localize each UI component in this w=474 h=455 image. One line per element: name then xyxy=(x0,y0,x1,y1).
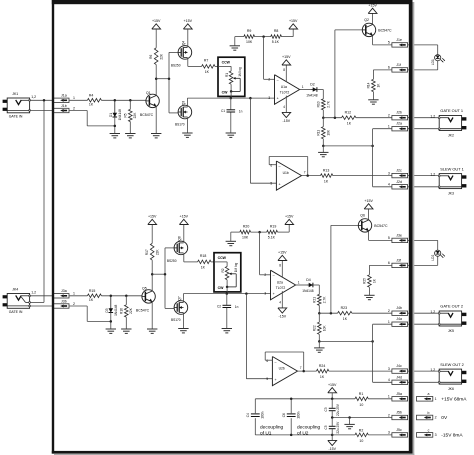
svg-text:J1a: J1a xyxy=(61,94,67,98)
svg-text:J4c: J4c xyxy=(396,364,402,368)
svg-text:GATE IN: GATE IN xyxy=(9,115,23,119)
svg-text:R6: R6 xyxy=(149,55,153,59)
svg-text:1n: 1n xyxy=(239,110,243,114)
svg-text:LD2: LD2 xyxy=(431,255,435,261)
svg-text:U1b: U1b xyxy=(283,171,289,175)
svg-text:JK1: JK1 xyxy=(12,92,18,96)
svg-text:2.7K: 2.7K xyxy=(322,296,326,303)
svg-text:+: + xyxy=(277,96,279,100)
svg-text:1: 1 xyxy=(388,125,390,129)
svg-text:R8: R8 xyxy=(274,29,279,33)
svg-text:2: 2 xyxy=(73,106,75,110)
svg-text:1: 1 xyxy=(73,96,75,100)
svg-text:JK6: JK6 xyxy=(448,387,454,391)
svg-text:J1f: J1f xyxy=(396,63,401,67)
svg-text:b: b xyxy=(428,411,430,415)
svg-text:C1: C1 xyxy=(221,109,225,113)
svg-text:JK5: JK5 xyxy=(448,329,454,333)
svg-text:Q8: Q8 xyxy=(178,236,182,240)
svg-text:D3: D3 xyxy=(105,308,109,312)
svg-text:+15V: +15V xyxy=(184,19,193,23)
svg-text:GATE OUT 1: GATE OUT 1 xyxy=(440,108,463,113)
svg-text:Q2: Q2 xyxy=(364,18,369,22)
svg-text:1N4148: 1N4148 xyxy=(302,289,313,293)
svg-text:BS250: BS250 xyxy=(167,259,177,263)
svg-text:22u 25V: 22u 25V xyxy=(336,421,340,434)
svg-text:TL072: TL072 xyxy=(280,90,290,94)
svg-text:+15V: +15V xyxy=(278,251,287,255)
svg-text:3: 3 xyxy=(264,292,266,296)
svg-text:1K: 1K xyxy=(201,265,206,269)
svg-text:1,2: 1,2 xyxy=(31,95,36,99)
svg-text:+15V: +15V xyxy=(285,215,294,219)
svg-text:4: 4 xyxy=(388,183,390,187)
svg-text:U2a: U2a xyxy=(277,281,283,285)
svg-text:J3e: J3e xyxy=(396,233,402,237)
svg-text:+: + xyxy=(279,183,281,187)
svg-text:1N4148: 1N4148 xyxy=(306,94,317,98)
svg-text:1: 1 xyxy=(73,292,75,296)
svg-text:D2: D2 xyxy=(310,82,315,86)
svg-text:J5b: J5b xyxy=(396,411,402,415)
svg-text:5: 5 xyxy=(266,377,268,381)
svg-text:J3b: J3b xyxy=(61,299,67,303)
svg-text:+15V: +15V xyxy=(289,19,298,23)
svg-text:J1b: J1b xyxy=(61,104,67,108)
svg-text:6: 6 xyxy=(388,261,390,265)
svg-text:Q4: Q4 xyxy=(182,41,186,45)
svg-text:BC547C: BC547C xyxy=(374,224,388,228)
svg-text:J2b: J2b xyxy=(396,111,402,115)
svg-text:–: – xyxy=(273,274,275,278)
svg-text:-15V: -15V xyxy=(279,314,287,318)
svg-text:J1e: J1e xyxy=(396,38,402,42)
svg-text:+: + xyxy=(275,378,277,382)
svg-text:C4: C4 xyxy=(246,413,250,417)
svg-text:R2: R2 xyxy=(359,428,364,432)
svg-text:J2d: J2d xyxy=(396,180,402,184)
svg-text:Q3: Q3 xyxy=(182,101,186,105)
svg-text:R2: R2 xyxy=(221,268,225,272)
svg-text:22u 25V: 22u 25V xyxy=(336,403,340,416)
svg-text:CW: CW xyxy=(218,286,225,290)
svg-text:J5a: J5a xyxy=(396,392,402,396)
svg-text:GATE OUT 2: GATE OUT 2 xyxy=(440,304,463,309)
svg-text:–: – xyxy=(279,164,281,168)
svg-text:6: 6 xyxy=(388,66,390,70)
svg-text:R25: R25 xyxy=(362,278,366,284)
svg-text:1,2: 1,2 xyxy=(430,114,435,118)
svg-text:R14: R14 xyxy=(366,82,370,88)
svg-text:2: 2 xyxy=(388,413,390,417)
svg-text:1K: 1K xyxy=(89,102,94,106)
svg-text:1,2: 1,2 xyxy=(31,291,36,295)
svg-text:22K: 22K xyxy=(129,307,133,314)
svg-text:decoupling: decoupling xyxy=(297,424,321,430)
svg-text:3: 3 xyxy=(268,96,270,100)
svg-text:+15V: +15V xyxy=(152,19,161,23)
svg-text:+15V: +15V xyxy=(180,215,189,219)
svg-text:J4a: J4a xyxy=(396,317,402,321)
svg-text:0V: 0V xyxy=(441,415,448,421)
svg-text:R21: R21 xyxy=(313,297,317,303)
svg-text:R9: R9 xyxy=(247,29,252,33)
svg-text:C5: C5 xyxy=(324,425,328,429)
svg-text:5: 5 xyxy=(388,41,390,45)
svg-text:5.1K: 5.1K xyxy=(268,235,276,239)
svg-text:10K: 10K xyxy=(242,235,249,239)
svg-text:R22: R22 xyxy=(313,325,317,331)
svg-text:1,2: 1,2 xyxy=(430,172,435,176)
svg-text:2: 2 xyxy=(388,309,390,313)
svg-text:1K: 1K xyxy=(343,317,348,321)
svg-text:BS250: BS250 xyxy=(171,63,181,67)
svg-text:8: 8 xyxy=(279,264,281,268)
svg-text:5: 5 xyxy=(270,182,272,186)
svg-text:8: 8 xyxy=(283,68,285,72)
svg-text:R23: R23 xyxy=(341,306,347,310)
svg-text:100n: 100n xyxy=(297,411,301,418)
svg-text:SLEW OUT 1: SLEW OUT 1 xyxy=(440,166,464,171)
svg-text:LD1: LD1 xyxy=(431,59,435,65)
svg-text:CCW: CCW xyxy=(222,61,231,65)
svg-text:of U1: of U1 xyxy=(260,431,272,437)
svg-text:CW: CW xyxy=(222,90,229,94)
svg-text:R19: R19 xyxy=(270,225,276,229)
svg-text:-15V 8mA: -15V 8mA xyxy=(441,432,463,438)
svg-text:22K: 22K xyxy=(160,53,164,60)
svg-text:R4: R4 xyxy=(89,93,94,97)
svg-text:R11: R11 xyxy=(317,130,321,136)
svg-text:BC547C: BC547C xyxy=(378,29,392,33)
svg-text:1N4148: 1N4148 xyxy=(114,304,118,315)
svg-text:1,2: 1,2 xyxy=(430,310,435,314)
svg-text:R17: R17 xyxy=(145,249,149,255)
svg-text:2: 2 xyxy=(268,77,270,81)
svg-text:1M log: 1M log xyxy=(238,67,242,77)
svg-text:6: 6 xyxy=(266,359,268,363)
svg-text:-15V: -15V xyxy=(283,119,291,123)
svg-text:R5: R5 xyxy=(124,113,128,117)
svg-text:10: 10 xyxy=(359,439,363,443)
svg-text:+: + xyxy=(273,292,275,296)
svg-text:1K: 1K xyxy=(347,121,352,125)
svg-text:J5c: J5c xyxy=(396,428,402,432)
svg-text:10K: 10K xyxy=(326,129,330,136)
svg-text:–: – xyxy=(277,78,279,82)
svg-text:+15V 68mA: +15V 68mA xyxy=(441,396,467,402)
svg-text:1: 1 xyxy=(388,395,390,399)
svg-text:6: 6 xyxy=(270,163,272,167)
svg-text:C6: C6 xyxy=(282,413,286,417)
svg-text:4: 4 xyxy=(279,301,281,305)
svg-text:R13: R13 xyxy=(323,168,329,172)
svg-text:3: 3 xyxy=(388,431,390,435)
svg-text:JK2: JK2 xyxy=(448,133,454,137)
svg-text:J3f: J3f xyxy=(396,258,401,262)
svg-text:3: 3 xyxy=(388,171,390,175)
svg-text:1K: 1K xyxy=(320,375,325,379)
svg-text:BS170: BS170 xyxy=(171,318,181,322)
svg-text:R1: R1 xyxy=(359,392,364,396)
svg-text:22K: 22K xyxy=(133,112,137,119)
svg-text:1N4148: 1N4148 xyxy=(118,109,122,120)
svg-text:U1a: U1a xyxy=(281,85,287,89)
svg-text:1: 1 xyxy=(302,85,304,89)
svg-text:4: 4 xyxy=(388,378,390,382)
svg-text:JK4: JK4 xyxy=(12,287,18,291)
svg-text:J3a: J3a xyxy=(61,289,67,293)
svg-text:J4d: J4d xyxy=(396,375,402,379)
svg-text:J2a: J2a xyxy=(396,122,402,126)
svg-text:+15V: +15V xyxy=(282,55,291,59)
svg-text:7: 7 xyxy=(300,366,302,370)
svg-text:–: – xyxy=(275,360,277,364)
svg-text:R18: R18 xyxy=(200,254,206,258)
svg-text:+15V: +15V xyxy=(148,215,157,219)
svg-text:5.1K: 5.1K xyxy=(272,40,280,44)
svg-text:2: 2 xyxy=(73,302,75,306)
svg-text:Q1: Q1 xyxy=(146,91,151,95)
svg-text:R16: R16 xyxy=(120,308,124,314)
svg-text:J2c: J2c xyxy=(396,169,402,173)
svg-text:4: 4 xyxy=(283,105,285,109)
svg-text:R20: R20 xyxy=(243,225,249,229)
svg-text:1,2: 1,2 xyxy=(430,368,435,372)
svg-text:a: a xyxy=(428,392,430,396)
svg-text:+15V: +15V xyxy=(364,199,373,203)
svg-text:+15V: +15V xyxy=(328,383,337,387)
svg-text:1M log: 1M log xyxy=(234,262,238,272)
svg-text:Q7: Q7 xyxy=(178,296,182,300)
svg-text:R1: R1 xyxy=(225,73,229,77)
svg-text:R7: R7 xyxy=(204,59,209,63)
svg-text:-15V: -15V xyxy=(328,447,336,451)
svg-text:SLEW OUT 2: SLEW OUT 2 xyxy=(440,362,464,367)
svg-text:R12: R12 xyxy=(345,110,351,114)
svg-text:TL072: TL072 xyxy=(276,286,286,290)
svg-text:10: 10 xyxy=(359,403,363,407)
svg-text:BC547C: BC547C xyxy=(140,113,154,117)
svg-text:D4: D4 xyxy=(306,278,311,282)
svg-text:10K: 10K xyxy=(322,325,326,332)
svg-text:1: 1 xyxy=(388,320,390,324)
svg-text:5: 5 xyxy=(388,236,390,240)
svg-text:of U2: of U2 xyxy=(297,431,309,437)
svg-text:R24: R24 xyxy=(319,364,325,368)
svg-text:3: 3 xyxy=(388,367,390,371)
svg-text:D1: D1 xyxy=(109,113,113,117)
svg-text:7: 7 xyxy=(304,171,306,175)
svg-text:1: 1 xyxy=(435,397,437,401)
svg-text:1K: 1K xyxy=(324,179,329,183)
svg-text:1n: 1n xyxy=(235,305,239,309)
svg-text:2: 2 xyxy=(388,114,390,118)
svg-text:22K: 22K xyxy=(156,249,160,256)
svg-text:R10: R10 xyxy=(317,101,321,107)
svg-text:C3: C3 xyxy=(324,407,328,411)
svg-text:10K: 10K xyxy=(246,40,253,44)
svg-text:J4b: J4b xyxy=(396,306,402,310)
svg-text:JK3: JK3 xyxy=(448,191,454,195)
svg-text:GATE IN: GATE IN xyxy=(9,310,23,314)
svg-text:BC547C: BC547C xyxy=(136,308,150,312)
svg-text:C2: C2 xyxy=(217,305,221,309)
svg-text:Q6: Q6 xyxy=(360,214,365,218)
svg-text:1K: 1K xyxy=(205,70,210,74)
svg-text:decoupling: decoupling xyxy=(260,424,284,430)
svg-text:100n: 100n xyxy=(261,411,265,418)
svg-text:1: 1 xyxy=(298,281,300,285)
svg-text:2: 2 xyxy=(264,273,266,277)
svg-text:c: c xyxy=(428,428,430,432)
svg-text:R15: R15 xyxy=(89,289,95,293)
svg-text:2.7K: 2.7K xyxy=(326,100,330,107)
svg-text:3: 3 xyxy=(435,433,437,437)
svg-text:U2b: U2b xyxy=(279,367,285,371)
svg-text:CCW: CCW xyxy=(218,256,227,260)
svg-text:Q5: Q5 xyxy=(142,287,147,291)
svg-text:1K: 1K xyxy=(89,298,94,302)
svg-text:2: 2 xyxy=(435,416,437,420)
svg-text:BS170: BS170 xyxy=(175,123,185,127)
